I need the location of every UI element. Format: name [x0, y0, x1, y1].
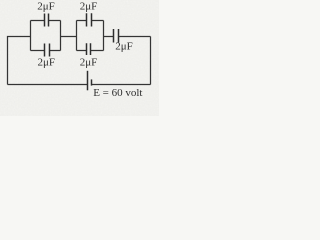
- svg-text:E = 60 volt: E = 60 volt: [93, 87, 142, 99]
- svg-text:2μF: 2μF: [115, 41, 133, 53]
- svg-text:2μF: 2μF: [38, 57, 56, 69]
- svg-text:2μF: 2μF: [37, 1, 55, 13]
- svg-text:2μF: 2μF: [80, 1, 98, 13]
- svg-text:2μF: 2μF: [80, 57, 98, 69]
